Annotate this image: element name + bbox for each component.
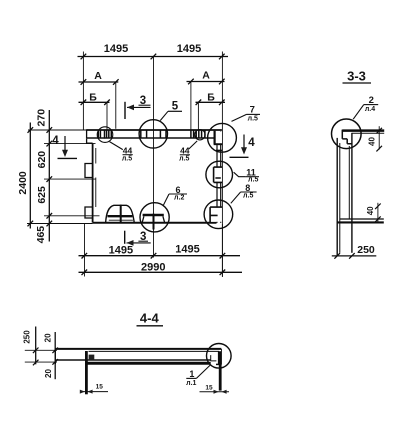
dimension B left <box>79 100 110 106</box>
small circle right detail <box>195 130 205 140</box>
svg-text:2400: 2400 <box>17 171 29 195</box>
notch 2 outline <box>214 167 223 182</box>
svg-text:л.5: л.5 <box>122 155 132 162</box>
svg-text:л.5: л.5 <box>248 116 258 123</box>
svg-text:8: 8 <box>245 183 250 193</box>
left edge bump 1 <box>85 164 93 178</box>
bottom dim line 1 (1495+1495) <box>79 255 241 257</box>
svg-text:1495: 1495 <box>104 43 128 55</box>
bottom dim line 2 (2990) <box>79 271 243 273</box>
section marker 3 top <box>125 102 151 119</box>
svg-text:44: 44 <box>180 145 190 155</box>
svg-text:620: 620 <box>36 151 48 169</box>
svg-text:A: A <box>94 70 102 82</box>
svg-text:250: 250 <box>23 330 32 344</box>
3-3 dim 40 top <box>378 126 380 149</box>
left edge inner line segments <box>95 148 97 207</box>
detail circle (3-3 top corner) <box>332 119 362 149</box>
top dimension line 1495+1495 <box>78 54 229 60</box>
overall height dim 2400 <box>29 123 31 229</box>
4-4 dim 20 / 20 <box>54 332 56 379</box>
chain extension lines <box>28 129 87 131</box>
svg-text:270: 270 <box>36 109 48 127</box>
4-4 left rib <box>85 351 88 394</box>
4-4 right corner circle <box>207 344 232 369</box>
svg-text:40: 40 <box>366 206 375 215</box>
4-4 right rib <box>219 364 222 390</box>
svg-text:4-4: 4-4 <box>140 311 160 326</box>
extension line A-right x=190.9 <box>190 82 192 130</box>
svg-text:2990: 2990 <box>141 262 165 274</box>
4-4 right underside stub <box>216 363 221 365</box>
svg-text:л.5: л.5 <box>243 192 253 199</box>
left edge bump 2 <box>85 207 93 218</box>
3-3 dim 40 bottom <box>377 203 379 224</box>
4-4 slab bottom line <box>56 359 211 361</box>
svg-text:44: 44 <box>123 145 133 155</box>
3-3 corner step <box>342 130 352 144</box>
4-4 slab top line <box>55 348 221 350</box>
dome 1 band <box>108 215 133 217</box>
svg-text:465: 465 <box>35 226 47 244</box>
4-4 right rib dim 15 <box>200 391 230 393</box>
3-3 bottom flange <box>340 218 384 220</box>
svg-text:1495: 1495 <box>175 244 199 256</box>
svg-text:250: 250 <box>357 244 375 256</box>
svg-text:4: 4 <box>248 137 255 149</box>
4-4 extension lines <box>25 349 57 351</box>
svg-text:40: 40 <box>368 137 377 146</box>
band hatch detail left <box>98 130 111 139</box>
svg-text:1495: 1495 <box>109 245 133 257</box>
hat detail dome 2 <box>143 214 164 217</box>
3-3 web <box>336 138 338 256</box>
panel bottom edge <box>93 222 217 224</box>
svg-text:Б: Б <box>207 92 215 104</box>
dome 2 left side <box>142 216 144 223</box>
svg-text:л.5: л.5 <box>179 156 189 163</box>
detail circle 11 (right middle) <box>206 161 233 188</box>
notch 1 white cutout (top-right corner) <box>215 131 222 143</box>
svg-text:л.1: л.1 <box>186 380 196 387</box>
right edge inner line <box>216 139 218 223</box>
panel top band top line <box>87 129 222 131</box>
svg-text:1495: 1495 <box>177 43 201 55</box>
notch 1 outline <box>214 131 216 144</box>
left inner dim chain line x=49.3 <box>48 110 50 242</box>
notch 3 outline <box>210 207 222 223</box>
panel left edge <box>92 143 94 222</box>
small circle left detail <box>97 127 113 143</box>
svg-text:625: 625 <box>36 186 48 204</box>
bottom extension lines <box>84 224 86 277</box>
hatch inside circle 5 <box>141 130 166 138</box>
svg-text:л.2: л.2 <box>174 194 184 201</box>
svg-text:3-3: 3-3 <box>347 69 366 84</box>
3-3 bottom dim 250 <box>332 255 377 257</box>
extension line B-left x=107 <box>106 102 108 130</box>
4-4 left rib dim 15 <box>81 391 108 393</box>
extension line B-right x=198.4 <box>197 102 199 130</box>
lifting loop dome 1 <box>106 205 135 223</box>
extension line left main x=83.4 <box>82 52 84 131</box>
4-4 slab bottom thick line <box>87 362 211 365</box>
left corner step <box>87 139 93 144</box>
detail circle 7 (top right corner) <box>208 123 237 152</box>
3-3 top flange <box>342 129 384 132</box>
extension line A-left x=115.8 <box>115 82 117 129</box>
extension / centerline right x=222.4 <box>221 52 223 278</box>
notch 2 white cutout <box>214 168 222 182</box>
detail circle 8 (right bottom) <box>204 200 233 229</box>
4-4 right end cap <box>221 349 223 365</box>
svg-text:20: 20 <box>44 369 53 378</box>
4-4 right notch outline <box>211 355 217 361</box>
svg-text:1: 1 <box>189 369 194 379</box>
dimension A right <box>187 79 225 85</box>
dimension A left <box>79 79 119 85</box>
svg-text:Б: Б <box>89 92 97 104</box>
chain slash ticks <box>47 127 53 226</box>
svg-text:6: 6 <box>175 185 180 195</box>
4-4 right corner dark band <box>218 351 221 364</box>
svg-text:л.4: л.4 <box>365 106 375 113</box>
dome 1 vertical bar <box>120 205 122 223</box>
right edge outer line <box>220 131 222 223</box>
svg-text:15: 15 <box>96 383 104 390</box>
notch 3 white cutout <box>210 208 221 222</box>
4-4 left step block <box>89 355 95 361</box>
svg-text:20: 20 <box>43 333 52 342</box>
band hatch detail right <box>191 130 205 138</box>
detail circle 6 (bottom center) <box>140 203 169 232</box>
detail circle 5 (top center) <box>139 120 167 148</box>
centerline x=153.5 <box>153 57 155 258</box>
dimension B right <box>196 100 226 106</box>
band left cap <box>86 129 88 138</box>
panel top band bottom line <box>87 137 216 139</box>
4-4 left end cap <box>54 348 56 364</box>
dome 1 lower thin line <box>109 219 133 221</box>
section marker 3 bottom <box>124 231 126 244</box>
4-4 slab top inner line <box>89 350 220 352</box>
svg-text:15: 15 <box>205 384 213 391</box>
svg-text:4: 4 <box>52 135 59 147</box>
4-4 dim 250 <box>35 327 37 365</box>
dome 2 right side <box>163 216 165 223</box>
svg-text:A: A <box>202 70 210 82</box>
dome 2 center bar <box>153 214 155 230</box>
